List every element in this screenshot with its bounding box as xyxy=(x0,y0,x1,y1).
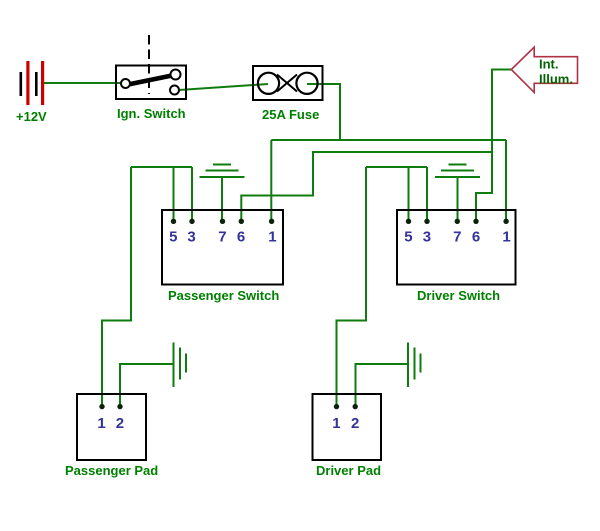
svg-text:6: 6 xyxy=(237,229,245,246)
svg-text:1: 1 xyxy=(268,229,276,246)
driver switch pin labels 5 3 7 6 1 xyxy=(404,229,511,246)
svg-text:2: 2 xyxy=(351,415,359,432)
svg-text:3: 3 xyxy=(187,229,195,246)
wire passenger pad pin 2 to ground xyxy=(120,364,173,407)
int. illum arrow xyxy=(511,47,577,92)
svg-text:6: 6 xyxy=(472,229,480,246)
driver pad pin labels 1 2 xyxy=(332,415,359,432)
svg-text:+12V: +12V xyxy=(16,109,47,124)
wire int illum arrow to driver pin 6 xyxy=(476,70,511,222)
svg-text:Ign. Switch: Ign. Switch xyxy=(117,106,186,121)
passenger ground symbol xyxy=(200,165,245,178)
driver pad ground symbol xyxy=(408,343,421,388)
svg-text:7: 7 xyxy=(218,229,226,246)
wire battery to ign switch xyxy=(44,82,121,84)
svg-text:3: 3 xyxy=(423,229,431,246)
svg-text:Int.: Int. xyxy=(539,57,559,72)
svg-text:1: 1 xyxy=(502,229,510,246)
fuse 25A xyxy=(253,66,323,122)
driver switch box xyxy=(397,210,516,303)
passenger pad ground symbol xyxy=(174,343,187,388)
svg-text:5: 5 xyxy=(169,229,177,246)
driver switch pins xyxy=(406,219,509,224)
wire driver pad pin 2 to ground xyxy=(356,364,408,407)
svg-text:Passenger Pad: Passenger Pad xyxy=(65,463,158,478)
wire illum branch to passenger pin 6 xyxy=(241,152,493,221)
driver ground symbol xyxy=(435,165,480,178)
driver pad box xyxy=(313,394,382,478)
wire bus to driver pin 1 xyxy=(505,140,507,221)
svg-text:Driver Pad: Driver Pad xyxy=(316,463,381,478)
svg-text:Passenger Switch: Passenger Switch xyxy=(168,288,279,303)
wire fuse to +12V bus xyxy=(307,84,340,140)
ign. switch xyxy=(116,35,186,121)
battery +12V xyxy=(16,61,47,124)
svg-text:5: 5 xyxy=(404,229,412,246)
passenger pad pins xyxy=(99,404,122,409)
wire +12V bus xyxy=(271,139,506,141)
driver pad pins xyxy=(334,404,358,409)
passenger pad box xyxy=(65,394,158,478)
wire passenger bus to pad pin 1 xyxy=(102,167,131,407)
wire driver bus to pad pin 1 xyxy=(337,167,367,407)
svg-text:2: 2 xyxy=(116,415,124,432)
svg-text:Illum.: Illum. xyxy=(539,72,573,87)
svg-text:25A Fuse: 25A Fuse xyxy=(262,107,319,122)
wire bus to passenger pin 5 xyxy=(173,167,175,221)
passenger switch box xyxy=(162,210,283,303)
passenger pad pin labels 1 2 xyxy=(97,415,124,432)
wire bus to driver pin 3 xyxy=(426,167,428,221)
wire ground to passenger pin 7 xyxy=(221,177,223,221)
wire bus to passenger pin 1 xyxy=(270,140,272,221)
svg-text:1: 1 xyxy=(332,415,340,432)
passenger switch pin labels 5 3 7 6 1 xyxy=(169,229,276,246)
passenger switch pins xyxy=(171,219,274,224)
wire ground to driver pin 7 xyxy=(457,177,459,221)
svg-text:7: 7 xyxy=(453,229,461,246)
wire bus to passenger pin 3 xyxy=(191,167,193,221)
svg-text:1: 1 xyxy=(97,415,105,432)
wire passenger pins 5-3 bus xyxy=(131,166,192,168)
wire ign switch to fuse xyxy=(179,84,268,90)
wire bus to driver pin 5 xyxy=(408,167,410,221)
wire driver pins 5-3 bus xyxy=(366,166,427,168)
svg-text:Driver Switch: Driver Switch xyxy=(417,288,500,303)
